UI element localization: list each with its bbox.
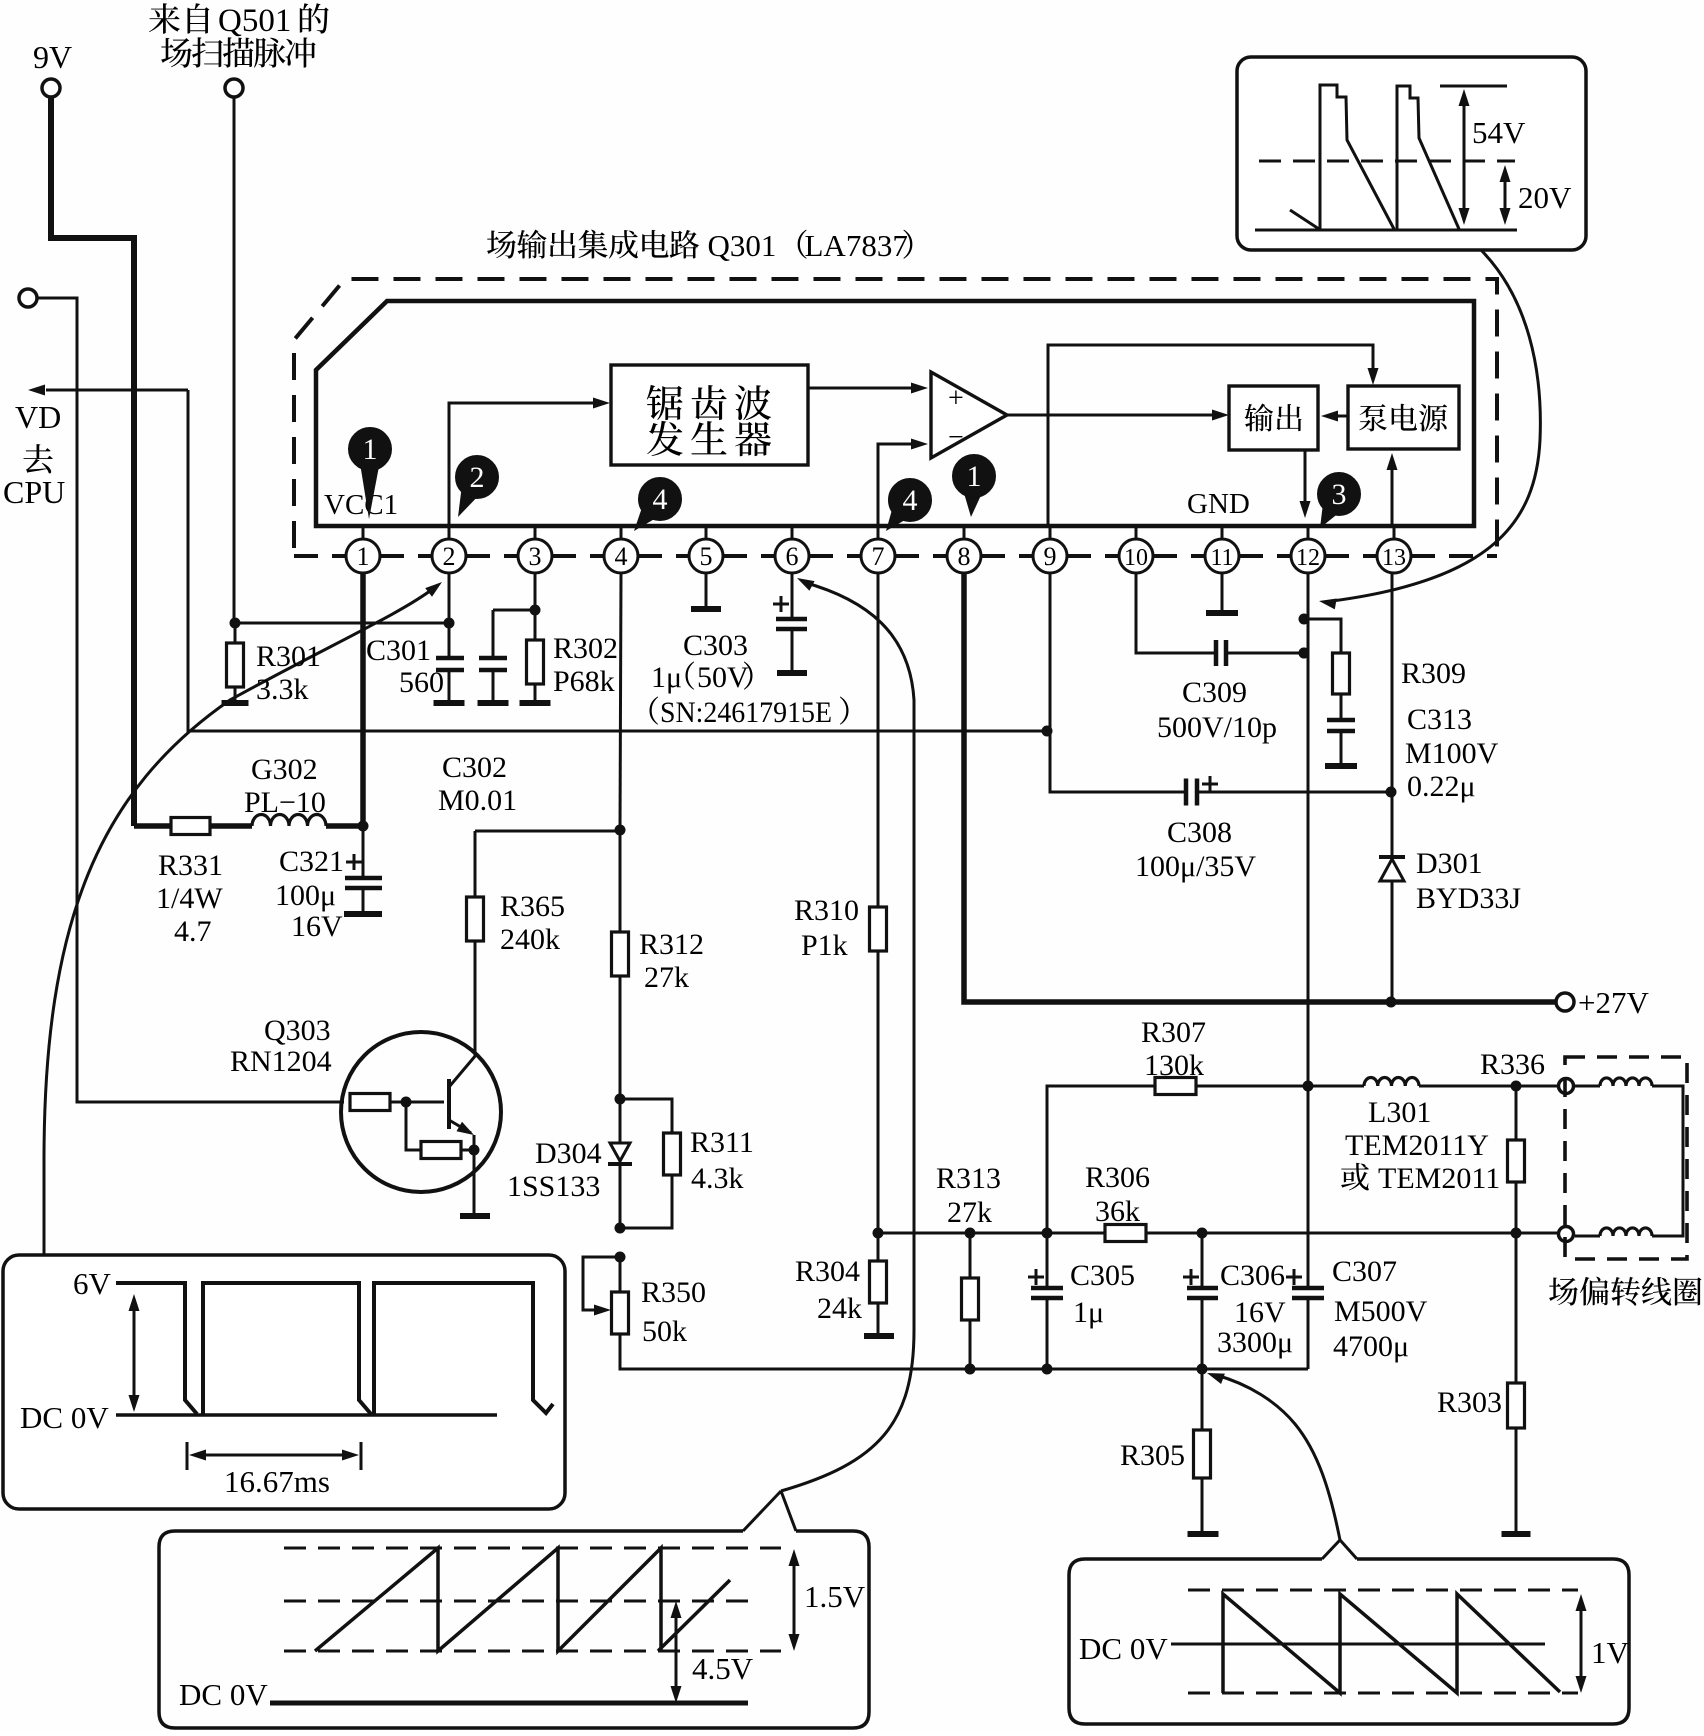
svg-text:VCC1: VCC1 (324, 489, 398, 521)
svg-text:1V: 1V (1591, 1635, 1630, 1670)
svg-text:6: 6 (786, 542, 799, 571)
svg-text:M0.01: M0.01 (438, 784, 517, 817)
svg-text:4: 4 (615, 542, 628, 571)
svg-text:1/4W: 1/4W (156, 882, 223, 915)
svg-text:16.67ms: 16.67ms (224, 1464, 330, 1499)
svg-text:10: 10 (1124, 545, 1148, 571)
svg-text:LA7837: LA7837 (805, 228, 908, 263)
svg-text:R350: R350 (641, 1276, 706, 1309)
svg-text:R313: R313 (936, 1162, 1001, 1195)
svg-text:20V: 20V (1518, 180, 1572, 215)
svg-text:4700μ: 4700μ (1333, 1330, 1409, 1363)
svg-text:R309: R309 (1401, 657, 1466, 690)
svg-text:R301: R301 (256, 640, 321, 673)
svg-text:C303: C303 (683, 629, 748, 662)
svg-text:3: 3 (1332, 478, 1347, 511)
svg-text:3: 3 (529, 542, 542, 571)
svg-text:560: 560 (399, 666, 444, 699)
svg-text:−: − (948, 422, 964, 453)
svg-text:DC 0V: DC 0V (179, 1677, 268, 1712)
svg-text:R310: R310 (794, 894, 859, 927)
svg-text:500V/10p: 500V/10p (1157, 711, 1277, 744)
svg-text:100μ/35V: 100μ/35V (1135, 850, 1256, 883)
svg-text:6V: 6V (73, 1266, 112, 1301)
svg-text:R336: R336 (1480, 1048, 1545, 1081)
svg-text:TEM2011Y: TEM2011Y (1345, 1129, 1489, 1162)
svg-text:C309: C309 (1182, 676, 1247, 709)
svg-text:D304: D304 (535, 1137, 602, 1170)
svg-text:C302: C302 (442, 751, 507, 784)
svg-text:R365: R365 (500, 890, 565, 923)
svg-text:1: 1 (363, 433, 378, 466)
svg-text:DC 0V: DC 0V (20, 1400, 109, 1435)
svg-text:1: 1 (967, 460, 982, 493)
svg-text:C306: C306 (1220, 1259, 1285, 1292)
svg-text:240k: 240k (500, 923, 560, 956)
svg-text:P68k: P68k (553, 665, 615, 698)
svg-text:Q301: Q301 (708, 228, 777, 263)
svg-text:5: 5 (700, 542, 713, 571)
svg-text:4: 4 (903, 484, 918, 517)
svg-text:36k: 36k (1095, 1195, 1140, 1228)
svg-text:54V: 54V (1472, 115, 1526, 150)
svg-text:R307: R307 (1141, 1016, 1206, 1049)
svg-text:TEM2011: TEM2011 (1378, 1162, 1500, 1195)
svg-text:DC 0V: DC 0V (1079, 1631, 1168, 1666)
svg-text:12: 12 (1296, 545, 1320, 571)
svg-text:100μ: 100μ (275, 879, 336, 912)
svg-text:1μ: 1μ (1073, 1296, 1104, 1329)
svg-text:27k: 27k (644, 961, 689, 994)
svg-text:0.22μ: 0.22μ (1407, 770, 1476, 803)
svg-text:3.3k: 3.3k (256, 673, 309, 706)
svg-text:PL−10: PL−10 (244, 786, 326, 819)
svg-text:L301: L301 (1368, 1096, 1431, 1129)
svg-text:3300μ: 3300μ (1217, 1326, 1293, 1359)
svg-text:C305: C305 (1070, 1259, 1135, 1292)
svg-text:P1k: P1k (801, 929, 848, 962)
svg-text:8: 8 (958, 542, 971, 571)
svg-text:G302: G302 (251, 753, 318, 786)
svg-text:16V: 16V (1234, 1296, 1286, 1329)
svg-text:1μ: 1μ (651, 661, 682, 694)
svg-text:1SS133: 1SS133 (507, 1170, 600, 1203)
svg-text:+: + (948, 383, 964, 414)
svg-text:C301: C301 (366, 634, 431, 667)
svg-text:9V: 9V (33, 39, 72, 75)
svg-text:4: 4 (653, 483, 668, 516)
svg-text:GND: GND (1187, 488, 1250, 520)
svg-text:R306: R306 (1085, 1161, 1150, 1194)
svg-text:CPU: CPU (3, 474, 65, 510)
svg-text:Q501: Q501 (218, 3, 291, 39)
svg-text:1: 1 (357, 542, 370, 571)
svg-text:C307: C307 (1332, 1255, 1397, 1288)
svg-text:4.3k: 4.3k (691, 1162, 744, 1195)
svg-text:50V: 50V (697, 661, 749, 694)
svg-text:2: 2 (470, 461, 485, 494)
svg-text:13: 13 (1382, 545, 1406, 571)
svg-text:27k: 27k (947, 1196, 992, 1229)
svg-text:R303: R303 (1437, 1386, 1502, 1419)
svg-text:11: 11 (1210, 545, 1233, 571)
svg-text:7: 7 (872, 542, 885, 571)
svg-text:130k: 130k (1144, 1049, 1204, 1082)
svg-text:4.7: 4.7 (174, 915, 212, 948)
svg-text:24k: 24k (817, 1292, 862, 1325)
svg-text:SN:24617915E: SN:24617915E (660, 696, 832, 729)
svg-text:C321: C321 (279, 845, 344, 878)
svg-text:4.5V: 4.5V (692, 1651, 754, 1686)
svg-text:R312: R312 (639, 928, 704, 961)
svg-text:R311: R311 (690, 1126, 754, 1159)
svg-text:9: 9 (1044, 542, 1057, 571)
svg-text:BYD33J: BYD33J (1416, 882, 1521, 915)
svg-text:VD: VD (15, 399, 61, 435)
svg-text:Q303: Q303 (264, 1014, 331, 1047)
svg-text:C308: C308 (1167, 816, 1232, 849)
svg-text:M100V: M100V (1405, 737, 1499, 770)
svg-text:D301: D301 (1416, 847, 1483, 880)
svg-text:R305: R305 (1120, 1439, 1185, 1472)
svg-text:50k: 50k (642, 1315, 687, 1348)
svg-text:RN1204: RN1204 (230, 1045, 332, 1078)
svg-text:M500V: M500V (1334, 1295, 1428, 1328)
svg-text:2: 2 (443, 542, 456, 571)
svg-text:R304: R304 (795, 1255, 860, 1288)
svg-text:+27V: +27V (1578, 985, 1649, 1020)
svg-text:C313: C313 (1407, 703, 1472, 736)
svg-text:R331: R331 (158, 849, 223, 882)
svg-text:1.5V: 1.5V (804, 1579, 866, 1614)
svg-text:16V: 16V (291, 910, 343, 943)
svg-text:R302: R302 (553, 632, 618, 665)
